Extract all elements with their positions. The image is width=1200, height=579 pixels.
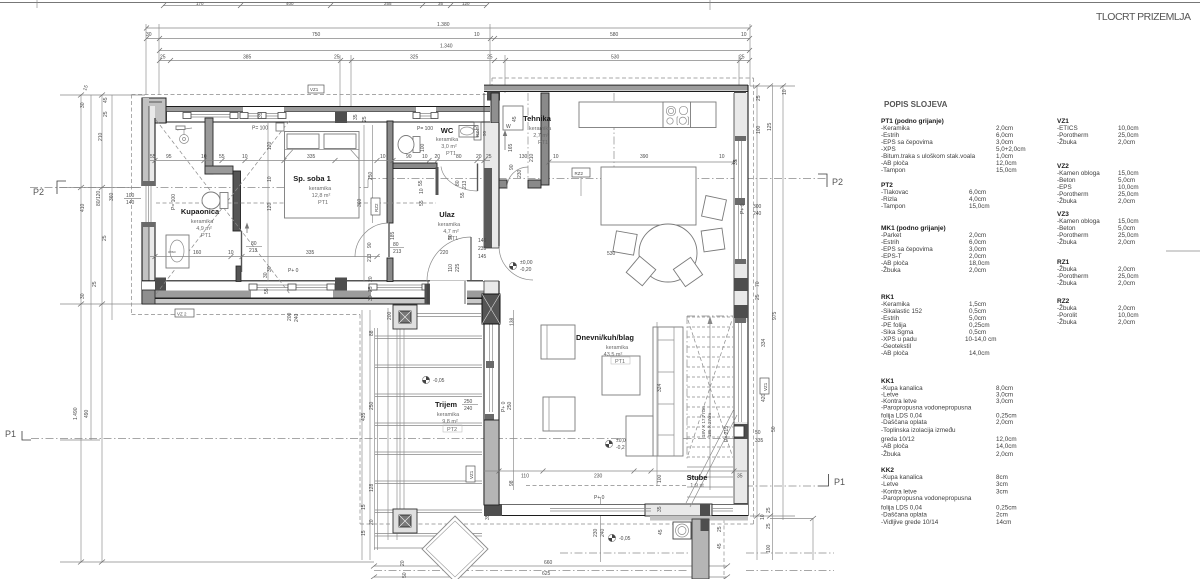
svg-text:35: 35 (353, 114, 359, 120)
svg-text:15,0cm: 15,0cm (996, 167, 1017, 174)
bathroom door leaf (241, 231, 243, 272)
svg-text:keramika: keramika (437, 412, 460, 418)
svg-text:0,5cm: 0,5cm (969, 308, 986, 315)
sofa chaise (626, 416, 653, 456)
svg-text:80: 80 (456, 154, 462, 160)
interior dim row bathroom y256 (150, 256, 380, 258)
svg-text:220: 220 (440, 250, 449, 256)
top dimension chain row0 (163, 5, 487, 7)
west wall upper (ulaz/tehnika) (484, 123, 499, 310)
svg-text:-Žbuka: -Žbuka (1057, 237, 1077, 246)
chair SE (673, 257, 702, 286)
boxed label RZ2 bedroom wall (371, 198, 380, 215)
svg-text:20: 20 (368, 276, 374, 282)
corner pillar NW (142, 98, 166, 123)
svg-text:213: 213 (367, 253, 373, 262)
svg-text:6,0cm: 6,0cm (969, 189, 986, 196)
svg-text:55: 55 (264, 288, 270, 294)
svg-text:P1: P1 (5, 429, 16, 439)
svg-text:-Porotherm: -Porotherm (1057, 132, 1089, 139)
svg-text:RZ4: RZ4 (475, 128, 480, 137)
left wall (142, 98, 149, 304)
svg-text:10: 10 (267, 176, 273, 182)
svg-text:213: 213 (462, 180, 468, 189)
border tick left (36, 0, 38, 8)
svg-text:Tehnika: Tehnika (523, 114, 552, 123)
svg-text:-Estrih: -Estrih (881, 315, 900, 322)
svg-text:240: 240 (294, 313, 300, 322)
svg-text:15: 15 (361, 530, 367, 536)
dining island (601, 167, 696, 225)
planter diamond (422, 516, 488, 579)
svg-text:975: 975 (772, 311, 778, 320)
svg-text:213: 213 (249, 248, 258, 254)
east wall (734, 93, 748, 516)
svg-text:14cm: 14cm (996, 519, 1011, 526)
svg-text:160: 160 (193, 250, 202, 256)
svg-text:-Kupa kanalica: -Kupa kanalica (881, 474, 923, 481)
living room door arc (499, 246, 533, 280)
svg-text:25: 25 (486, 154, 492, 160)
svg-text:490: 490 (84, 409, 90, 418)
svg-text:120: 120 (462, 1, 470, 6)
svg-text:55: 55 (418, 180, 424, 186)
svg-text:5,0cm: 5,0cm (1118, 177, 1135, 184)
window top shower segment (183, 114, 238, 116)
svg-text:-Porotherm: -Porotherm (1057, 232, 1089, 239)
svg-text:W: W (506, 124, 511, 130)
bathroom vanity (166, 235, 189, 268)
stairs up arrow (709, 322, 711, 490)
svg-text:P= 100: P= 100 (171, 194, 177, 210)
svg-text:25: 25 (334, 55, 340, 61)
svg-text:30: 30 (368, 295, 374, 301)
svg-text:30: 30 (80, 293, 86, 299)
svg-text:keramika: keramika (436, 137, 459, 143)
svg-text:390: 390 (640, 154, 649, 160)
svg-text:Kupaonica: Kupaonica (181, 207, 220, 216)
WC toilet (413, 137, 420, 153)
svg-text:300: 300 (753, 204, 762, 210)
svg-text:10: 10 (228, 250, 234, 256)
east window 2 (735, 322, 747, 422)
VZ1 box label porch (466, 466, 475, 482)
svg-text:-Toplinska izolacija između: -Toplinska izolacija između (881, 427, 956, 434)
stairs (687, 317, 733, 497)
svg-text:125: 125 (767, 122, 773, 131)
tehnika door arc (507, 167, 528, 188)
svg-text:1.340: 1.340 (440, 44, 453, 50)
stove (663, 102, 691, 128)
svg-text:750: 750 (312, 32, 321, 38)
svg-text:100: 100 (420, 143, 426, 152)
overhang dashed below SE (723, 519, 725, 579)
svg-text:10: 10 (760, 514, 766, 520)
svg-text:10: 10 (201, 154, 207, 160)
svg-text:RZ2: RZ2 (1057, 298, 1070, 305)
svg-text:30: 30 (267, 266, 273, 272)
svg-text:-Žbuka: -Žbuka (881, 449, 901, 458)
svg-text:VZ1: VZ1 (763, 382, 768, 391)
svg-text:VZ3: VZ3 (1057, 211, 1069, 218)
svg-text:10,0cm: 10,0cm (1118, 125, 1139, 132)
svg-text:25,0cm: 25,0cm (1118, 273, 1139, 280)
svg-text:-XPS: -XPS (881, 146, 896, 153)
svg-text:-Porolit: -Porolit (1057, 312, 1077, 319)
svg-text:55: 55 (419, 200, 425, 206)
right dimension chain lines (756, 85, 758, 560)
svg-text:2,0cm: 2,0cm (996, 419, 1013, 426)
svg-text:35: 35 (657, 506, 663, 512)
svg-text:100: 100 (657, 474, 663, 483)
svg-text:660: 660 (544, 560, 553, 566)
svg-text:80/120: 80/120 (96, 190, 102, 206)
svg-text:-Letve: -Letve (881, 481, 899, 488)
entrance door opening (430, 281, 467, 305)
svg-text:P2: P2 (33, 187, 44, 197)
svg-text:45: 45 (512, 116, 518, 122)
svg-text:RZ1: RZ1 (1057, 259, 1070, 266)
svg-text:10: 10 (242, 154, 248, 160)
svg-text:25: 25 (102, 235, 108, 241)
svg-text:25: 25 (766, 507, 772, 513)
svg-text:10: 10 (553, 154, 559, 160)
svg-text:70: 70 (755, 281, 761, 287)
svg-text:-Žbuka: -Žbuka (1057, 278, 1077, 287)
svg-text:235: 235 (478, 246, 487, 252)
top border line (0, 2, 1200, 4)
top wall piers (156, 112, 167, 123)
svg-text:100: 100 (126, 193, 135, 199)
svg-text:2,0cm: 2,0cm (969, 232, 986, 239)
svg-text:-Žbuka: -Žbuka (1057, 264, 1077, 273)
nightstand left (276, 123, 284, 131)
right block bottom wall (484, 504, 748, 516)
svg-text:25: 25 (362, 116, 368, 122)
svg-text:1:9 st: 1:9 st (690, 483, 704, 489)
entrance door arc (427, 237, 471, 281)
svg-text:120: 120 (267, 202, 273, 211)
svg-text:Dnevni/kuh/blag: Dnevni/kuh/blag (576, 333, 634, 342)
svg-text:530: 530 (607, 251, 616, 257)
porch vertical dim chain outer (361, 310, 363, 560)
svg-text:5,0cm: 5,0cm (969, 315, 986, 322)
svg-text:-Žbuka: -Žbuka (881, 265, 901, 274)
svg-text:10: 10 (741, 32, 747, 38)
svg-text:PT1: PT1 (446, 151, 456, 157)
svg-text:P= 100: P= 100 (417, 126, 433, 132)
svg-text:1.490: 1.490 (73, 407, 79, 420)
svg-text:50: 50 (755, 430, 761, 436)
svg-text:9,8 m²: 9,8 m² (442, 419, 458, 425)
svg-text:TLOCRT PRIZEMLJA: TLOCRT PRIZEMLJA (1096, 11, 1191, 23)
interior dim row bathroom/bedroom/wc y157 (150, 160, 490, 162)
svg-text:-Sika Sgma: -Sika Sgma (881, 329, 914, 336)
svg-text:230: 230 (517, 169, 523, 178)
east window 1 (735, 140, 747, 260)
bottom dimension chain 660 (374, 565, 727, 567)
svg-text:250: 250 (368, 171, 374, 180)
svg-text:25: 25 (368, 286, 374, 292)
SE boundary wall below (692, 519, 709, 579)
svg-text:335: 335 (306, 250, 315, 256)
svg-text:-Kamen obloga: -Kamen obloga (1057, 170, 1100, 177)
svg-text:20: 20 (435, 154, 441, 160)
svg-text:95: 95 (166, 154, 172, 160)
svg-text:2,7 m²: 2,7 m² (533, 133, 549, 139)
svg-text:3,0 m²: 3,0 m² (441, 144, 457, 150)
svg-text:145: 145 (478, 238, 487, 244)
svg-text:Trijem: Trijem (435, 400, 457, 409)
svg-text:MK1 (podno grijanje): MK1 (podno grijanje) (881, 225, 946, 232)
east wall piers (734, 278, 748, 291)
svg-text:2,0cm: 2,0cm (1118, 280, 1135, 287)
porch header beam (416, 313, 482, 315)
svg-text:25,0cm: 25,0cm (1118, 191, 1139, 198)
svg-text:15,0cm: 15,0cm (969, 203, 990, 210)
bottom dimension chain 625 (374, 576, 727, 578)
bottom wall piers (155, 278, 166, 291)
svg-text:P2: P2 (832, 177, 843, 187)
svg-text:90: 90 (367, 242, 373, 248)
svg-text:8cm: 8cm (996, 474, 1008, 481)
svg-text:-Daščana oplata: -Daščana oplata (881, 419, 927, 426)
svg-text:P= 100: P= 100 (252, 126, 268, 132)
top dimension chain 25-385-25-325-25-530-25 (159, 60, 750, 62)
svg-text:-Estrih: -Estrih (881, 239, 900, 246)
boxed label VZ2 bottom (175, 309, 194, 317)
svg-text:PT1 (podno grijanje): PT1 (podno grijanje) (881, 118, 944, 125)
svg-text:±0,0: ±0,0 (616, 438, 626, 444)
border tick mid (709, 0, 711, 10)
shower head (180, 135, 189, 144)
svg-text:80: 80 (455, 180, 461, 186)
tehnika south wall (499, 180, 507, 188)
svg-text:PT1: PT1 (201, 233, 211, 239)
round table (639, 224, 697, 282)
svg-text:25: 25 (92, 281, 98, 287)
svg-text:55: 55 (150, 154, 156, 160)
svg-text:250: 250 (369, 401, 375, 410)
svg-text:2,0cm: 2,0cm (996, 451, 1013, 458)
top dimension chain 1.340 (159, 50, 750, 52)
svg-text:185 X 27cm: 185 X 27cm (707, 413, 712, 437)
left dimension chain lines (80, 95, 82, 562)
svg-text:360: 360 (109, 192, 115, 201)
svg-text:334: 334 (761, 338, 767, 347)
svg-text:20: 20 (476, 154, 482, 160)
interior dim row tehnika/kitchen (549, 161, 734, 163)
svg-text:360: 360 (357, 198, 363, 207)
svg-text:90: 90 (509, 164, 515, 170)
svg-text:250: 250 (507, 401, 513, 410)
svg-text:325: 325 (410, 55, 419, 61)
svg-text:35: 35 (258, 112, 264, 118)
svg-text:Sp. soba 1: Sp. soba 1 (293, 174, 331, 183)
svg-text:213: 213 (393, 249, 402, 255)
svg-text:55: 55 (219, 154, 225, 160)
svg-text:-Paropropusna vodonepropusna: -Paropropusna vodonepropusna (881, 405, 972, 412)
chair E (701, 228, 725, 252)
svg-text:324: 324 (657, 383, 663, 392)
window left wall (141, 186, 156, 222)
svg-text:25: 25 (717, 526, 723, 532)
kitchen counter (579, 102, 716, 128)
right dim ticks (754, 84, 760, 89)
svg-text:335: 335 (307, 154, 316, 160)
sofa (653, 327, 683, 456)
left block bottom wall (142, 281, 490, 305)
svg-text:170: 170 (196, 1, 204, 6)
svg-text:P= 215: P= 215 (724, 426, 730, 442)
boxed label VZ1 top (308, 85, 324, 93)
svg-text:18,0cm: 18,0cm (969, 260, 990, 267)
svg-text:-AB ploča: -AB ploča (881, 443, 909, 450)
svg-text:80: 80 (393, 242, 399, 248)
svg-text:-ETICS: -ETICS (1057, 125, 1078, 132)
chair W (613, 231, 637, 255)
WC door leaf (477, 164, 479, 192)
svg-text:35: 35 (485, 514, 491, 520)
svg-text:410: 410 (80, 203, 86, 212)
svg-text:50: 50 (482, 130, 487, 136)
svg-text:90: 90 (406, 154, 412, 160)
svg-text:110: 110 (521, 474, 529, 480)
svg-text:10: 10 (380, 154, 386, 160)
svg-text:obso: obso (168, 250, 176, 254)
svg-text:3,0cm: 3,0cm (996, 398, 1013, 405)
bedroom door arc (388, 223, 390, 257)
svg-text:PT1: PT1 (538, 140, 548, 146)
left dim ticks (78, 93, 84, 98)
svg-text:25: 25 (756, 95, 762, 101)
svg-text:230: 230 (594, 474, 603, 480)
boxed label RZ2 kitchen (572, 168, 590, 177)
svg-text:138: 138 (510, 317, 516, 326)
WC sink (459, 126, 478, 138)
svg-text:5,0+2,0cm: 5,0+2,0cm (996, 146, 1026, 153)
svg-text:-EPS-T: -EPS-T (881, 253, 902, 260)
coffee table (602, 356, 640, 395)
svg-text:2,0cm: 2,0cm (1118, 139, 1135, 146)
svg-text:2,0cm: 2,0cm (1118, 305, 1135, 312)
svg-text:VZ2: VZ2 (1057, 163, 1069, 170)
svg-text:200: 200 (387, 311, 393, 320)
stair boundary dashed (687, 315, 733, 317)
svg-text:200: 200 (287, 312, 293, 321)
svg-text:10: 10 (419, 188, 425, 194)
svg-text:10: 10 (782, 89, 788, 95)
svg-text:25: 25 (739, 55, 745, 61)
svg-text:5,0cm: 5,0cm (1118, 225, 1135, 232)
svg-text:1,0cm: 1,0cm (996, 153, 1013, 160)
porch column SW (393, 509, 417, 533)
svg-text:18V X 17,77cm: 18V X 17,77cm (701, 406, 706, 437)
svg-text:P+ 0: P+ 0 (740, 203, 746, 214)
svg-text:2,0cm: 2,0cm (1118, 198, 1135, 205)
level marker living (605, 438, 626, 451)
roof overhang dashed outline (132, 94, 493, 96)
svg-text:140: 140 (126, 200, 135, 206)
svg-text:120: 120 (267, 141, 273, 150)
svg-text:20: 20 (400, 560, 406, 566)
bathroom step arrow (246, 226, 248, 233)
svg-text:keramika: keramika (191, 219, 214, 225)
chair SW (626, 256, 656, 286)
svg-text:2,0cm: 2,0cm (996, 125, 1013, 132)
tehnika east wall (541, 93, 549, 185)
svg-text:keramika: keramika (606, 345, 629, 351)
svg-text:POPIS SLOJEVA: POPIS SLOJEVA (884, 100, 948, 109)
porch column NW (393, 305, 417, 329)
svg-text:KK2: KK2 (881, 467, 894, 474)
svg-text:-0,2: -0,2 (616, 445, 625, 451)
west wall solid lower part (484, 420, 499, 505)
porch deck beams (375, 324, 483, 550)
svg-text:12,0cm: 12,0cm (996, 160, 1017, 167)
bathroom dashed diagonals (156, 120, 290, 294)
svg-text:keramika: keramika (438, 222, 461, 228)
svg-text:-Tlakovac: -Tlakovac (881, 189, 908, 196)
svg-text:RK1: RK1 (881, 294, 894, 301)
svg-text:P1: P1 (834, 477, 845, 487)
svg-text:PT2: PT2 (881, 182, 893, 189)
svg-text:12,8 m²: 12,8 m² (312, 193, 331, 199)
svg-text:-Paropropusna vodonepropusna: -Paropropusna vodonepropusna (881, 495, 972, 502)
svg-text:3cm: 3cm (996, 489, 1008, 496)
svg-text:15,0cm: 15,0cm (1118, 170, 1139, 177)
svg-text:25: 25 (755, 294, 761, 300)
terrace ground lines (374, 547, 484, 549)
bathroom toilet (220, 193, 228, 209)
svg-text:0,25cm: 0,25cm (996, 505, 1017, 512)
svg-text:-Beton: -Beton (1057, 177, 1076, 184)
svg-text:240: 240 (753, 211, 762, 217)
svg-text:4,9 m²: 4,9 m² (196, 226, 212, 232)
svg-text:145: 145 (478, 254, 487, 260)
svg-text:-Žbuka: -Žbuka (1057, 137, 1077, 146)
tehnika boiler W (503, 106, 523, 130)
corner block SW of left block (142, 290, 155, 304)
svg-text:3,0cm: 3,0cm (969, 246, 986, 253)
svg-text:P+ 0: P+ 0 (594, 495, 605, 501)
inspection chamber (673, 522, 691, 539)
stone strip below SE wall (650, 516, 748, 521)
window bottom bedroom (251, 282, 333, 298)
svg-text:15: 15 (361, 504, 367, 510)
vertical dim chain in bedroom x268 (267, 122, 269, 281)
stairs break diagonals (686, 409, 734, 503)
svg-text:-Tampon: -Tampon (881, 167, 906, 174)
svg-text:80: 80 (251, 241, 257, 247)
svg-text:RZ2: RZ2 (374, 203, 379, 212)
svg-text:-PE folija: -PE folija (881, 322, 907, 329)
svg-text:12,0cm: 12,0cm (996, 436, 1017, 443)
level marker ulaz (509, 260, 532, 273)
svg-text:VZ1: VZ1 (469, 470, 474, 479)
svg-text:RZ2: RZ2 (575, 171, 584, 176)
svg-text:435: 435 (361, 412, 367, 421)
svg-text:-Kamen obloga: -Kamen obloga (1057, 218, 1100, 225)
svg-text:530: 530 (611, 55, 620, 61)
bedroom east wall (387, 121, 393, 223)
armchair 1 (541, 325, 575, 359)
west wall lower (porch side) (484, 310, 499, 505)
svg-text:10: 10 (474, 32, 480, 38)
svg-text:-Tampon: -Tampon (881, 203, 906, 210)
svg-text:Ulaz: Ulaz (439, 210, 455, 219)
svg-text:110: 110 (448, 264, 454, 272)
